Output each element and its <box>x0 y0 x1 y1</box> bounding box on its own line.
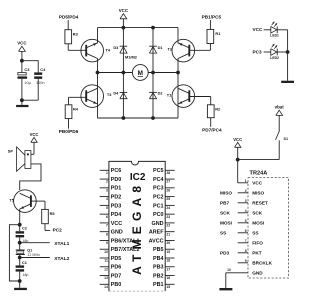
wire VCC to speaker <box>33 142 35 154</box>
svg-text:5: 5 <box>245 219 247 223</box>
op IC2 body <box>109 161 165 291</box>
IC2 pin 23 stub <box>165 213 174 215</box>
svg-text:S1: S1 <box>284 137 289 141</box>
svg-text:28: 28 <box>166 171 170 175</box>
svg-text:ATMEGA8: ATMEGA8 <box>130 181 144 275</box>
svg-text:PD1: PD1 <box>111 186 122 192</box>
wire junction to C3 <box>21 61 23 73</box>
svg-text:R5: R5 <box>50 211 56 216</box>
IC2 pin 18 stub <box>165 257 174 259</box>
IC2 pin 22 stub <box>165 222 174 224</box>
wire XTAL1 node to Q1 <box>19 243 21 250</box>
svg-text:BRCKLK: BRCKLK <box>252 261 272 266</box>
IC2 pin 16 stub <box>165 275 174 277</box>
wire junction to C4 branch <box>22 60 38 62</box>
switch S1 <box>276 131 280 140</box>
wire S1 to VCC node <box>278 140 280 159</box>
svg-text:R1: R1 <box>215 31 221 36</box>
LED LED2 <box>271 49 277 56</box>
svg-text:PD0: PD0 <box>111 177 122 183</box>
IC2 pin 4 stub <box>100 196 109 198</box>
node C3/C4 bottom junction <box>20 98 24 102</box>
node left branch / motor wire <box>96 71 100 75</box>
wire VCC to top rail <box>122 19 124 28</box>
IC2 pin 2 stub <box>100 178 109 180</box>
svg-text:PC4: PC4 <box>153 177 164 183</box>
svg-text:D2: D2 <box>158 91 164 96</box>
TR24A pin 2 stub <box>238 192 248 194</box>
svg-text:GND: GND <box>111 230 123 236</box>
wire top rail <box>98 27 179 29</box>
wire R2 to PD7/PC4 <box>210 118 212 127</box>
svg-text:PB1: PB1 <box>153 282 164 288</box>
svg-text:SS: SS <box>220 231 226 236</box>
capacitor C2 (18p) <box>16 231 25 233</box>
svg-text:PB6/XTAL1: PB6/XTAL1 <box>111 238 140 244</box>
svg-text:25: 25 <box>166 197 170 201</box>
capacitor C3 (electrolytic 10µ) <box>18 73 26 75</box>
svg-text:9: 9 <box>106 241 108 245</box>
ground (LED rail) <box>281 81 294 83</box>
diode D1 <box>152 28 154 73</box>
IC2 pin 5 stub <box>100 204 109 206</box>
svg-text:15: 15 <box>166 285 170 289</box>
svg-text:12 MHz: 12 MHz <box>27 253 40 257</box>
node motor wire / right branch <box>176 71 180 75</box>
ground (TR24A) <box>219 288 232 290</box>
svg-text:21: 21 <box>166 232 170 236</box>
svg-text:16: 16 <box>166 276 170 280</box>
node T5 emitter / C2 <box>18 223 22 227</box>
wire vbat to S1 <box>278 115 280 131</box>
svg-text:PD4: PD4 <box>111 212 122 218</box>
crystal Q1 (12 MHz) <box>16 249 25 251</box>
svg-text:10: 10 <box>227 268 231 272</box>
svg-text:5: 5 <box>106 206 108 210</box>
IC2 pin 12 stub <box>100 266 109 268</box>
wire R3 to T4 base <box>67 44 69 51</box>
module TR24A outline (dashed) <box>248 178 289 278</box>
wire VCC to C3/C4 junction <box>21 51 23 60</box>
svg-text:3: 3 <box>245 199 247 203</box>
node motor wire / D1-D2 <box>151 71 155 75</box>
svg-text:PB1/PC5: PB1/PC5 <box>202 15 222 20</box>
node C1 / bypass / ground <box>18 279 22 283</box>
svg-text:MISO: MISO <box>252 191 264 196</box>
wire T2 collector / right branch <box>177 59 179 119</box>
wire R1 to T2 base <box>209 44 211 51</box>
svg-text:AVCC: AVCC <box>149 238 164 244</box>
svg-text:PC3: PC3 <box>252 49 262 54</box>
svg-text:6: 6 <box>245 229 247 233</box>
IC2 pin 9 stub <box>100 239 109 241</box>
svg-text:1: 1 <box>106 171 108 175</box>
transistor T2 (PNP, top-right) <box>172 39 195 62</box>
svg-text:19: 19 <box>166 250 170 254</box>
svg-text:R4: R4 <box>73 106 79 111</box>
IC2 pin 13 stub <box>100 275 109 277</box>
resistor R2 <box>207 105 214 118</box>
svg-text:PD7: PD7 <box>111 273 122 279</box>
svg-text:MISO: MISO <box>220 191 232 196</box>
ground (crystal section) <box>14 288 27 290</box>
svg-text:10: 10 <box>104 250 108 254</box>
svg-text:GND: GND <box>252 271 263 276</box>
svg-text:7: 7 <box>106 224 108 228</box>
wire ground bypass (left) <box>9 225 19 281</box>
TR24A pin 7 stub <box>238 242 248 244</box>
node bottom rail / D2 <box>151 116 155 120</box>
wire PB1/PC5 to R1 <box>209 20 211 29</box>
wire VCC to LED1 <box>264 29 271 31</box>
svg-text:SS: SS <box>252 231 258 236</box>
IC2 pin 21 stub <box>165 231 174 233</box>
svg-text:PD5: PD5 <box>111 256 122 262</box>
resistor R5 <box>42 209 49 223</box>
ground (power section) <box>16 105 28 107</box>
IC2 pin 14 stub <box>100 283 109 285</box>
svg-text:PD3: PD3 <box>111 203 122 209</box>
svg-text:MOSI: MOSI <box>252 221 264 226</box>
svg-text:11: 11 <box>104 259 108 263</box>
wire C1 to bottom node <box>19 272 21 281</box>
wire rail to T2 emitter <box>177 28 179 44</box>
svg-text:VCC: VCC <box>252 181 263 186</box>
svg-text:XTAL2: XTAL2 <box>54 256 69 262</box>
svg-text:PB7/XTAL2: PB7/XTAL2 <box>111 247 140 253</box>
TR24A pin 9 stub <box>238 262 248 264</box>
svg-text:23: 23 <box>166 215 170 219</box>
svg-text:M1/M2: M1/M2 <box>125 55 138 60</box>
wire rail to T4 emitter <box>97 28 99 44</box>
node XTAL1 <box>18 241 22 245</box>
svg-text:C3: C3 <box>24 67 30 72</box>
svg-text:PB7: PB7 <box>220 201 230 206</box>
wire T5 emitter <box>19 209 21 225</box>
svg-text:26: 26 <box>166 188 170 192</box>
svg-text:SP: SP <box>8 149 14 154</box>
LED LED1 <box>271 27 277 34</box>
svg-text:PD2: PD2 <box>111 195 122 201</box>
node motor wire / D3-D4 <box>122 71 126 75</box>
IC2 pin 24 stub <box>165 204 174 206</box>
svg-text:VCC: VCC <box>17 41 27 46</box>
node top rail / D3 <box>122 26 126 30</box>
wire R4 to PB0/PD6 <box>68 119 70 129</box>
svg-text:VCC: VCC <box>252 27 263 32</box>
wire T3 base to R4 <box>69 96 87 98</box>
node top rail / D1 <box>151 26 155 30</box>
wire R5 to PC2 <box>44 224 46 231</box>
svg-text:PB2: PB2 <box>153 273 164 279</box>
IC2 pin 27 stub <box>165 178 174 180</box>
svg-text:PC6: PC6 <box>111 168 122 174</box>
IC2 pin 15 stub <box>165 283 174 285</box>
svg-text:FIFO: FIFO <box>252 241 263 246</box>
IC2 pin 20 stub <box>165 239 174 241</box>
wire to ground (crystal) <box>19 281 21 288</box>
speaker SP <box>25 151 31 169</box>
wire XTAL1 <box>20 242 50 244</box>
svg-text:PC3: PC3 <box>153 186 164 192</box>
transistor T1 (NPN, bottom-right) <box>172 85 195 108</box>
svg-text:C2: C2 <box>22 226 28 231</box>
TR24A pin 3 stub <box>238 202 248 204</box>
svg-text:C1: C1 <box>22 260 28 265</box>
svg-text:C4: C4 <box>40 67 46 72</box>
IC2 pin 25 stub <box>165 196 174 198</box>
svg-text:PC2: PC2 <box>53 227 63 232</box>
wire bottom rail <box>98 117 179 119</box>
wire motor right <box>148 72 178 74</box>
resistor R3 <box>65 30 72 44</box>
svg-text:VCC: VCC <box>233 137 242 142</box>
IC2 pin 11 stub <box>100 257 109 259</box>
svg-text:10µ: 10µ <box>24 81 31 85</box>
svg-text:PC2: PC2 <box>153 195 164 201</box>
svg-text:12: 12 <box>104 267 108 271</box>
svg-text:18: 18 <box>166 259 170 263</box>
IC2 pin 3 stub <box>100 187 109 189</box>
motor M1/M2 <box>132 65 148 81</box>
IC2 pin 26 stub <box>165 187 174 189</box>
svg-text:17: 17 <box>166 267 170 271</box>
IC2 pin 10 stub <box>100 248 109 250</box>
svg-text:AREF: AREF <box>149 230 164 236</box>
wire C4 to bottom junction <box>37 79 39 100</box>
svg-text:8: 8 <box>245 249 247 253</box>
svg-text:MOSI: MOSI <box>220 221 232 226</box>
wire C3 to bottom junction <box>21 79 23 100</box>
svg-text:PKT: PKT <box>252 251 262 256</box>
svg-text:4: 4 <box>245 209 247 213</box>
diode D3 <box>122 28 124 73</box>
node XTAL2 <box>18 256 22 260</box>
wire C2 to XTAL1 node <box>19 237 21 242</box>
capacitor C4 (100n) <box>34 72 42 75</box>
wire XTAL2 node to C1 <box>19 258 21 266</box>
IC2 pin 17 stub <box>165 266 174 268</box>
svg-text:24: 24 <box>166 206 170 210</box>
svg-text:PC5: PC5 <box>153 168 164 174</box>
wire motor left <box>98 72 133 74</box>
node bottom rail / D4 <box>122 116 126 120</box>
diode D2 <box>152 73 154 119</box>
resistor R4 <box>65 105 72 119</box>
svg-text:GND: GND <box>152 221 164 227</box>
svg-text:6: 6 <box>106 215 108 219</box>
wire PC3 to LED2 <box>264 51 271 53</box>
IC2 pin 19 stub <box>165 248 174 250</box>
svg-text:PB0: PB0 <box>111 282 122 288</box>
svg-text:2: 2 <box>106 180 108 184</box>
svg-text:PB4: PB4 <box>153 256 164 262</box>
IC2 pin 6 stub <box>100 213 109 215</box>
svg-text:14: 14 <box>104 285 108 289</box>
svg-text:3: 3 <box>106 188 108 192</box>
svg-text:PB0/PD6: PB0/PD6 <box>59 129 79 134</box>
svg-text:100n: 100n <box>36 81 44 85</box>
wire PD5/PD4 to R3 <box>67 20 69 30</box>
svg-text:1: 1 <box>245 179 247 183</box>
wire Q1 to XTAL2 node <box>19 255 21 258</box>
IC2 pin 7 stub <box>100 222 109 224</box>
svg-text:R2: R2 <box>215 106 221 111</box>
svg-text:18p: 18p <box>22 273 28 277</box>
transistor T4 (PNP, top-left) <box>81 39 104 62</box>
TR24A pin 4 stub <box>238 212 248 214</box>
svg-text:D4: D4 <box>113 91 119 96</box>
wire T5 base to R5 <box>31 200 45 202</box>
wire XTAL2 <box>20 257 50 259</box>
wire speaker to T5 collector <box>20 164 41 190</box>
svg-text:VCC: VCC <box>30 132 39 137</box>
node LED rail junction <box>286 50 290 54</box>
svg-text:8: 8 <box>106 232 108 236</box>
svg-text:PC0: PC0 <box>153 212 164 218</box>
svg-text:2: 2 <box>245 189 247 193</box>
wire LED rail <box>287 30 289 81</box>
svg-text:XTAL1: XTAL1 <box>54 241 69 247</box>
transistor T3 (NPN, bottom-left) <box>81 85 104 108</box>
svg-text:PB5: PB5 <box>153 247 164 253</box>
node VCC / vbat wire <box>236 158 240 162</box>
svg-text:PC1: PC1 <box>153 203 164 209</box>
svg-text:M: M <box>138 70 143 77</box>
IC2 pin 28 stub <box>165 169 174 171</box>
node C3/C4 top junction <box>20 59 24 63</box>
svg-text:VCC: VCC <box>111 221 122 227</box>
svg-text:PB3: PB3 <box>153 265 164 271</box>
wire LED1 to rail <box>277 29 287 31</box>
svg-text:9: 9 <box>245 259 247 263</box>
svg-text:4: 4 <box>106 197 108 201</box>
svg-text:13: 13 <box>104 276 108 280</box>
wire T1 base to R2 <box>189 96 210 98</box>
TR24A pin 6 stub <box>238 232 248 234</box>
svg-text:7: 7 <box>245 239 247 243</box>
svg-text:22: 22 <box>166 224 170 228</box>
svg-text:SCK: SCK <box>252 211 263 216</box>
IC2 pin 1 stub <box>100 169 109 171</box>
wire VCC to TR24A pin 1 <box>237 147 239 183</box>
capacitor C1 (18p) <box>16 265 25 267</box>
diode D4 <box>122 73 124 119</box>
wire LED2 to rail <box>277 51 287 53</box>
svg-text:vbat: vbat <box>275 105 285 110</box>
svg-text:D1: D1 <box>158 45 164 50</box>
svg-text:VCC: VCC <box>119 8 129 13</box>
TR24A pin 8 stub <box>238 252 248 254</box>
IC2 pin 8 stub <box>100 231 109 233</box>
svg-text:RESET: RESET <box>252 201 268 206</box>
svg-text:PD5/PD4: PD5/PD4 <box>59 15 79 20</box>
wire junction to C2 <box>19 225 21 232</box>
svg-text:20: 20 <box>166 241 170 245</box>
svg-text:R3: R3 <box>73 31 79 36</box>
svg-text:D3: D3 <box>113 45 119 50</box>
wire T4 collector / left branch <box>97 59 99 119</box>
svg-text:LED1: LED1 <box>270 34 279 38</box>
svg-text:27: 27 <box>166 180 170 184</box>
svg-text:PD3: PD3 <box>220 251 230 256</box>
transistor T5 (NPN, speaker driver) <box>14 190 37 213</box>
svg-text:LED2: LED2 <box>270 56 279 60</box>
svg-text:PD7/PC4: PD7/PC4 <box>202 128 222 133</box>
svg-text:PD6: PD6 <box>111 265 122 271</box>
wire junction to ground <box>21 100 23 105</box>
resistor R1 <box>207 29 214 43</box>
svg-text:SCK: SCK <box>220 211 231 216</box>
svg-text:TR24A: TR24A <box>250 170 268 176</box>
wire TR24A GND pin <box>226 272 248 274</box>
TR24A pin 5 stub <box>238 222 248 224</box>
